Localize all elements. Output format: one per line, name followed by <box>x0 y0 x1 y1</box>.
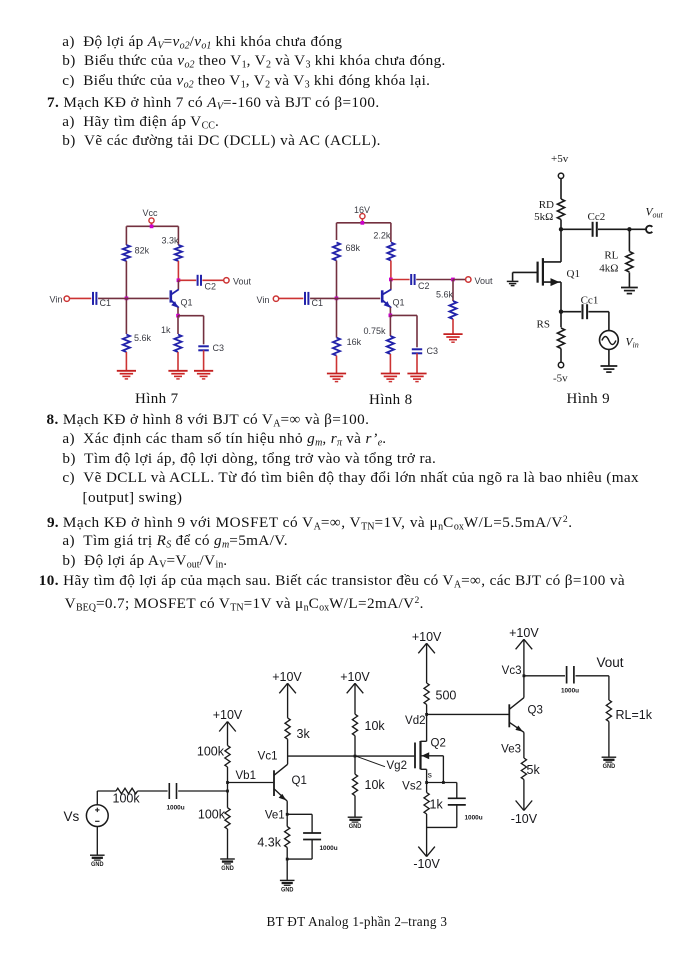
svg-text:5.6k: 5.6k <box>436 290 454 300</box>
svg-text:-10V: -10V <box>511 812 538 826</box>
svg-text:+10V: +10V <box>272 670 302 684</box>
svg-text:C3: C3 <box>213 343 225 353</box>
svg-text:Ve1: Ve1 <box>265 809 285 821</box>
svg-text:Cc2: Cc2 <box>588 211 606 223</box>
svg-text:Q2: Q2 <box>431 738 446 750</box>
svg-text:Q1: Q1 <box>181 298 193 308</box>
svg-text:Vd2: Vd2 <box>405 715 425 727</box>
svg-text:5.6k: 5.6k <box>134 333 152 343</box>
svg-text:Vout: Vout <box>646 207 664 220</box>
svg-text:Vb1: Vb1 <box>236 770 256 782</box>
svg-text:Vin: Vin <box>626 337 639 350</box>
svg-text:Vs2: Vs2 <box>402 781 422 793</box>
svg-text:Q1: Q1 <box>567 268 580 280</box>
svg-text:Vin: Vin <box>257 295 270 305</box>
svg-text:Ve3: Ve3 <box>501 744 521 756</box>
svg-text:2.2k: 2.2k <box>373 230 391 240</box>
svg-text:1k: 1k <box>161 325 171 335</box>
svg-text:10k: 10k <box>365 778 386 792</box>
svg-text:C1: C1 <box>312 298 324 308</box>
svg-text:10k: 10k <box>365 719 386 733</box>
svg-text:GND: GND <box>91 861 104 868</box>
svg-text:1000u: 1000u <box>167 805 185 812</box>
svg-text:+10V: +10V <box>340 670 370 684</box>
svg-text:1000u: 1000u <box>465 815 483 822</box>
svg-text:Q1: Q1 <box>393 298 405 308</box>
svg-text:Vout: Vout <box>475 276 494 286</box>
svg-text:4.3k: 4.3k <box>257 836 281 850</box>
svg-text:-5v: -5v <box>553 373 568 385</box>
svg-text:GND: GND <box>603 763 616 770</box>
svg-text:Vout: Vout <box>233 277 252 287</box>
svg-text:82k: 82k <box>135 246 150 256</box>
svg-text:5k: 5k <box>527 763 541 777</box>
svg-text:C1: C1 <box>100 298 112 308</box>
svg-text:-10V: -10V <box>413 857 440 871</box>
svg-text:500: 500 <box>436 689 457 703</box>
svg-text:Vc3: Vc3 <box>502 665 522 677</box>
svg-text:4kΩ: 4kΩ <box>599 263 618 275</box>
svg-text:Vout: Vout <box>597 655 624 670</box>
svg-text:+5v: +5v <box>551 153 569 165</box>
svg-text:Q1: Q1 <box>292 775 307 787</box>
svg-text:+10V: +10V <box>412 630 442 644</box>
svg-text:3.3k: 3.3k <box>162 235 180 245</box>
svg-text:s: s <box>428 769 432 779</box>
svg-text:Q3: Q3 <box>528 705 543 717</box>
svg-text:C2: C2 <box>418 281 430 291</box>
svg-text:3k: 3k <box>297 727 311 741</box>
svg-text:Vg2: Vg2 <box>387 760 407 772</box>
svg-text:RL=1k: RL=1k <box>616 708 653 722</box>
svg-text:RL: RL <box>604 250 618 262</box>
svg-text:+10V: +10V <box>509 626 539 640</box>
svg-text:RS: RS <box>537 318 550 330</box>
svg-text:68k: 68k <box>346 243 361 253</box>
svg-text:+10V: +10V <box>213 708 243 722</box>
svg-text:16k: 16k <box>347 337 362 347</box>
svg-text:5kΩ: 5kΩ <box>534 211 553 223</box>
svg-text:Vc1: Vc1 <box>258 751 278 763</box>
svg-text:100k: 100k <box>198 808 226 822</box>
svg-text:Cc1: Cc1 <box>581 295 599 307</box>
svg-text:1000u: 1000u <box>320 845 338 852</box>
svg-text:C2: C2 <box>205 282 217 292</box>
svg-text:Vs: Vs <box>64 809 80 824</box>
svg-text:RD: RD <box>539 199 554 211</box>
svg-text:GND: GND <box>349 823 362 830</box>
svg-text:1k: 1k <box>430 798 444 812</box>
svg-text:GND: GND <box>281 886 294 893</box>
svg-text:C3: C3 <box>427 346 439 356</box>
svg-text:100k: 100k <box>197 745 225 759</box>
svg-text:1000u: 1000u <box>561 688 579 695</box>
svg-text:Vcc: Vcc <box>143 208 159 218</box>
svg-text:0.75k: 0.75k <box>364 326 387 336</box>
svg-text:GND: GND <box>221 865 234 872</box>
svg-text:Vin: Vin <box>50 295 63 305</box>
svg-text:100k: 100k <box>113 792 141 806</box>
